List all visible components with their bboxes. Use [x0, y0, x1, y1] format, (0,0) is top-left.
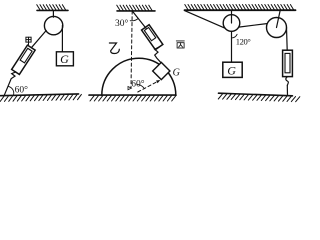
right pulley bing	[267, 18, 287, 38]
weight G box jia	[56, 52, 73, 66]
weight G block on dome yi	[153, 62, 170, 79]
wire: string at 30 deg yi	[132, 11, 146, 28]
svg-text:60°: 60°	[15, 84, 29, 95]
label bing (CJK glyph drawn)	[176, 41, 184, 48]
pulley jia	[44, 16, 62, 34]
ground bing	[218, 93, 300, 102]
wire: string down to weight G bing	[231, 31, 233, 62]
left pulley support bing	[231, 10, 233, 23]
wire: anchored string from ceiling end to left pulley	[185, 11, 226, 29]
spring scale yi (inclined)	[142, 25, 163, 50]
hook of spring scale jia	[4, 72, 16, 95]
ceiling panel bing	[185, 5, 296, 11]
wire: string between pulleys bing	[239, 24, 267, 28]
pulley support jia	[52, 10, 54, 17]
ceiling panel jia	[37, 5, 68, 11]
label yi (CJK glyph drawn)	[109, 43, 119, 54]
wire: string left side to spring scale jia	[31, 31, 46, 48]
angle arc jia	[9, 86, 14, 94]
svg-text:120°: 120°	[236, 36, 251, 46]
spring scale bing (vertical)	[283, 50, 293, 76]
dashed radius line with arrow yi	[138, 80, 161, 92]
svg-text:G: G	[173, 67, 180, 78]
svg-text:30°: 30°	[115, 18, 129, 29]
right pulley support bing	[277, 10, 281, 27]
angle arc yi	[137, 84, 144, 88]
label jia (CJK glyph drawn)	[26, 37, 31, 45]
small open arrowhead yi	[128, 87, 131, 90]
wire: link to ground bing	[286, 85, 288, 96]
wire: string right side to weight G jia	[61, 26, 63, 52]
weight G box bing	[223, 62, 242, 77]
angle arc at ceiling yi	[130, 19, 138, 21]
hook of spring scale bing	[286, 77, 289, 86]
spring scale jia (inclined 60)	[12, 45, 36, 74]
ground yi	[89, 95, 176, 101]
svg-text:G: G	[60, 52, 69, 66]
dashed vertical reference line yi	[131, 11, 132, 88]
wire: string down to spring scale bing	[286, 28, 289, 51]
dome (hemisphere) yi	[102, 58, 176, 95]
angle arc bing	[232, 34, 238, 38]
ground jia	[0, 94, 82, 102]
left pulley bing	[223, 15, 240, 32]
hook of spring scale yi	[155, 47, 161, 63]
svg-text:G: G	[227, 63, 236, 77]
ceiling panel yi	[117, 5, 155, 11]
